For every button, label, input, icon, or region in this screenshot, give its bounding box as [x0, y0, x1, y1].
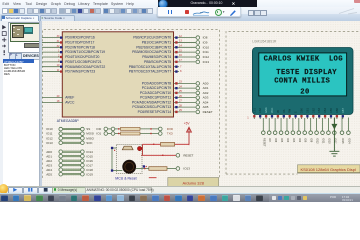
svg-text:SS: SS	[86, 127, 90, 131]
chip pin label AREF	[65, 95, 74, 99]
P/L buttons + DEVICES	[9, 53, 16, 60]
svg-text:TESTE DISPLAY: TESTE DISPLAY	[276, 68, 337, 76]
toolbar	[0, 7, 360, 16]
svg-text:+5V: +5V	[184, 121, 191, 125]
chip pin label PC5/ADC5/SCL/PCINT13	[132, 105, 171, 109]
svg-text:PB2/SS/OC1B/PCINT2: PB2/SS/OC1B/PCINT2	[136, 45, 171, 49]
svg-text:AD1: AD1	[46, 154, 52, 158]
svg-text:PD0/RXD/PCINT16: PD0/RXD/PCINT16	[65, 35, 95, 39]
header pair AD1 - IO15	[46, 154, 93, 158]
svg-text:PD5/T1/OC0B/PCINT21: PD5/T1/OC0B/PCINT21	[65, 59, 102, 63]
svg-text:PB5/SCK/PCINT5: PB5/SCK/PCINT5	[144, 59, 171, 63]
LCD terminal IO9	[303, 117, 308, 142]
LCD1 pin 3 stub	[265, 114, 267, 118]
svg-text:RS: RS	[283, 109, 286, 113]
wire R3 to button	[143, 143, 161, 155]
header pair IO13 - SCK	[46, 140, 92, 144]
chip pin PC3 wire to terminal AD3	[174, 93, 196, 98]
svg-text:RESET: RESET	[183, 153, 193, 157]
chip pin label PB7/TOSC2/XTAL2/PCINT7	[129, 69, 172, 73]
left mode toolbar icons	[1, 24, 8, 56]
svg-text:PD2/INT0/PCINT18: PD2/INT0/PCINT18	[65, 45, 95, 49]
ground (display)	[329, 117, 339, 156]
svg-text:TXD: TXD	[167, 131, 174, 135]
svg-text:AD2: AD2	[203, 90, 209, 94]
LCD1 pin 8 stub	[294, 114, 296, 118]
svg-text:PC2/ADC2/PCINT10: PC2/ADC2/PCINT10	[140, 90, 171, 94]
svg-text:DB6: DB6	[336, 107, 339, 112]
svg-text:DB7: DB7	[342, 107, 345, 112]
terminal RESET	[196, 109, 213, 113]
LCD1 pin 5 stub	[277, 114, 279, 118]
power +5V	[184, 121, 192, 144]
chip pin AREF stub	[42, 95, 63, 98]
terminal AD2	[196, 90, 209, 94]
chip pin label PD6/AIN0/OC0A/PCINT22	[65, 64, 105, 68]
svg-text:AD5: AD5	[203, 105, 209, 109]
chip pin label PB2/SS/OC1B/PCINT2	[136, 45, 171, 49]
svg-text:CONTA MILLIS: CONTA MILLIS	[274, 77, 330, 85]
svg-text:GND: GND	[265, 107, 268, 113]
LCD terminal IO14	[347, 117, 352, 144]
header pair AD4 - IO18	[46, 167, 93, 171]
svg-text:PC5/ADC5/SCL/PCINT13: PC5/ADC5/SCL/PCINT13	[132, 105, 171, 109]
splitter	[39, 21, 43, 187]
svg-text:PB6/TOSC1/XTAL1/PCINT6: PB6/TOSC1/XTAL1/PCINT6	[129, 64, 172, 68]
left panel base	[0, 21, 42, 187]
chip pin AVCC stub	[42, 99, 63, 102]
svg-text:RESET: RESET	[203, 109, 213, 113]
wire button to RESET terminal	[141, 154, 176, 155]
LCD terminal IO15	[340, 117, 345, 144]
svg-text:IO19: IO19	[86, 172, 93, 176]
svg-text:PC3/ADC3/PCINT11: PC3/ADC3/PCINT11	[140, 95, 171, 99]
resistor R1	[121, 127, 140, 130]
chip pin PC0 wire to terminal AD0	[174, 79, 196, 84]
svg-text:IO13: IO13	[46, 140, 53, 144]
svg-text:DB5: DB5	[330, 107, 333, 112]
overview window	[8, 22, 43, 54]
svg-text:IO10: IO10	[327, 137, 331, 143]
button actuator Q	[122, 159, 136, 173]
terminal AD0	[196, 81, 209, 85]
toolbar icons right of overlay	[248, 10, 255, 17]
chip pin PB7 stub	[174, 69, 182, 73]
chip pin label PB0/ICP1/CLKO/PCINT0	[133, 35, 171, 39]
terminal AD4	[196, 100, 209, 104]
chip pin label PD7/AIN1/PCINT23	[65, 69, 95, 73]
svg-text:AD0: AD0	[46, 149, 52, 153]
chip pin PB4 wire to terminal IO12	[174, 53, 196, 58]
header pair IO10 - SS	[46, 127, 90, 131]
chip pin PB2 wire to terminal IO10	[174, 43, 196, 48]
wire +5V to R3	[175, 143, 189, 146]
svg-text:PB0/ICP1/CLKO/PCINT0: PB0/ICP1/CLKO/PCINT0	[133, 35, 171, 39]
svg-text:PD4/T0/XCK/PCINT20: PD4/T0/XCK/PCINT20	[65, 55, 99, 59]
svg-text:IO7: IO7	[268, 137, 272, 142]
svg-text:IO11: IO11	[203, 50, 210, 54]
svg-text:DB1: DB1	[306, 107, 309, 112]
svg-text:IO14: IO14	[347, 137, 351, 143]
device list	[3, 59, 40, 188]
svg-text:IO12: IO12	[203, 55, 210, 59]
LCD1 screen	[259, 52, 347, 95]
svg-text:CS1: CS1	[253, 107, 256, 112]
LCD terminal IO17	[333, 117, 338, 143]
svg-text:IO15: IO15	[86, 154, 93, 158]
recorder overlay dark bar	[158, 0, 258, 7]
LCD terminal IO7	[267, 117, 272, 142]
svg-text:DB3: DB3	[318, 107, 321, 112]
chip pin label PC6/RESET/PCINT14	[138, 109, 172, 113]
chip pin label PB4/MISO/PCINT4	[142, 55, 171, 59]
svg-text:IO9: IO9	[304, 137, 308, 142]
chip pin PB5 wire to terminal IO13	[174, 58, 196, 63]
svg-text:DB0: DB0	[300, 107, 303, 112]
terminal IO8	[196, 35, 208, 39]
chip pin PD0 stub (pin 30)	[42, 35, 63, 39]
LCD1 body	[252, 47, 353, 114]
module label box Arduino 328	[168, 177, 219, 186]
header pair IO1 - TXD with resistor	[96, 131, 173, 135]
header pair AD3 - IO17	[46, 163, 93, 167]
terminal IO13	[196, 59, 209, 63]
chip pin PB6 stub	[174, 64, 182, 68]
LCD terminal IO3	[291, 117, 296, 142]
chip pin label PC4/ADC4/SDA/PCINT12	[132, 100, 171, 104]
chip pin PC1 wire to terminal AD1	[174, 84, 196, 89]
module label box KS0108	[297, 164, 359, 172]
Arduino module dashed border	[42, 29, 219, 177]
svg-text:PB1/OC1A/PCINT1: PB1/OC1A/PCINT1	[142, 40, 172, 44]
svg-text:IO10: IO10	[46, 127, 53, 131]
svg-text:AD3: AD3	[203, 95, 209, 99]
svg-text:PB3/MOSI/OC2A/PCINT3: PB3/MOSI/OC2A/PCINT3	[132, 50, 171, 54]
LCD terminal IO8	[309, 117, 314, 142]
chip pin PD4 stub (pin 2)	[42, 54, 63, 58]
chip pin PC2 wire to terminal AD2	[174, 89, 196, 94]
svg-text:IO6: IO6	[274, 137, 278, 142]
button cap	[122, 146, 133, 150]
chip pin label PD1/TXD/PCINT17	[65, 40, 94, 44]
svg-text:PD1/TXD/PCINT17: PD1/TXD/PCINT17	[65, 40, 94, 44]
LCD terminal IO4	[285, 117, 290, 142]
chip pin PC4 wire to terminal AD4	[174, 98, 196, 103]
svg-text:RW: RW	[289, 108, 292, 113]
chip pin PD5 stub (pin 9)	[42, 59, 63, 63]
svg-text:PD6/AIN0/OC0A/PCINT22: PD6/AIN0/OC0A/PCINT22	[65, 64, 105, 68]
svg-text:IO16: IO16	[86, 158, 93, 162]
svg-text:VCC: VCC	[271, 107, 274, 112]
resistor R3 reset pullup	[161, 142, 175, 146]
LCD terminal IO11	[321, 117, 326, 143]
chip U1 ATMEGA328P body	[62, 31, 173, 116]
terminal AD1	[196, 86, 209, 90]
chip pin label PB3/MOSI/OC2A/PCINT3	[132, 50, 171, 54]
LCD1 pin 10 stub	[306, 114, 308, 118]
LCD1 pin 13 stub	[324, 114, 326, 118]
svg-text:SCK: SCK	[86, 140, 92, 144]
svg-text:IO2: IO2	[298, 137, 302, 142]
recorder white panel	[157, 7, 241, 18]
svg-text:AD3: AD3	[46, 163, 52, 167]
LCD1 pin 1 stub	[253, 114, 255, 118]
svg-text:IO4: IO4	[286, 137, 290, 142]
LCD terminal IO10	[327, 117, 332, 143]
chip pin PD6 stub (pin 10)	[42, 64, 63, 68]
resistor R2	[121, 131, 140, 134]
svg-text:PB4/MISO/PCINT4: PB4/MISO/PCINT4	[142, 55, 171, 59]
LCD terminal IO5	[279, 117, 284, 142]
header pair AD0 - IO14	[46, 149, 93, 153]
svg-text:IO8: IO8	[203, 35, 208, 39]
svg-text:DB4: DB4	[324, 107, 327, 112]
terminal IO13	[176, 166, 190, 170]
svg-text:MCU & Reset: MCU & Reset	[115, 176, 136, 180]
chip U1 label ATMEGA328P	[57, 118, 80, 122]
svg-text:AD4: AD4	[203, 100, 209, 104]
terminal IO10	[196, 45, 209, 49]
svg-text:20: 20	[300, 88, 309, 96]
chip pin PD3 stub (pin 1)	[42, 49, 63, 53]
LCD terminal IO6	[273, 117, 278, 142]
svg-text:IO13: IO13	[183, 166, 190, 170]
svg-text:AD1: AD1	[203, 86, 209, 90]
header pair AD2 - IO16	[46, 158, 93, 162]
LCD1 screen text	[264, 55, 343, 96]
svg-text:MOSI: MOSI	[86, 131, 94, 135]
svg-text:AD5: AD5	[46, 172, 52, 176]
svg-text:IO3: IO3	[292, 137, 296, 142]
display module dashed border	[226, 31, 360, 174]
chip pin PB3 wire to terminal IO11	[174, 48, 196, 53]
svg-text:AD0: AD0	[203, 81, 209, 85]
svg-text:AD2: AD2	[46, 158, 52, 162]
LCD1 pin 11 stub	[312, 114, 314, 118]
chip pin label PB6/TOSC1/XTAL1/PCINT6	[129, 64, 172, 68]
svg-text:IO12: IO12	[316, 137, 320, 143]
svg-text:CS2: CS2	[259, 107, 262, 112]
label MCU & Reset	[115, 176, 136, 180]
resistor R4	[149, 166, 167, 170]
chip pin PB1 wire to terminal IO9	[174, 38, 196, 43]
svg-text:IO11: IO11	[46, 131, 53, 135]
chip pin label PC2/ADC2/PCINT10	[140, 90, 171, 94]
svg-text:IO15: IO15	[341, 137, 345, 143]
LCD terminal IO12	[315, 117, 320, 143]
chip pin label PD3/INT1/OC2B/PCINT19	[65, 50, 105, 54]
menu bar	[0, 0, 360, 7]
chip pin PD1 stub (pin 31)	[42, 39, 63, 43]
chip pin label AVCC	[65, 100, 75, 104]
LCD1 pin1 number	[247, 115, 249, 119]
chip pin label PB5/SCK/PCINT5	[144, 59, 171, 63]
LCD1 pin 12 stub	[318, 114, 320, 118]
wire (red stub near module border)	[149, 176, 157, 178]
svg-text:IO1: IO1	[96, 131, 101, 135]
terminal IO12	[196, 55, 209, 59]
svg-text:PD3/INT1/OC2B/PCINT19: PD3/INT1/OC2B/PCINT19	[65, 50, 105, 54]
svg-text:MISO: MISO	[86, 136, 94, 140]
LCD1 pin 7 stub	[289, 114, 291, 118]
svg-text:IO18: IO18	[86, 167, 93, 171]
terminal IO9	[196, 40, 208, 44]
chip pin label PC1/ADC1/PCINT9	[142, 86, 172, 90]
LCD1 pin 9 stub	[300, 114, 302, 118]
window close sliver	[354, 0, 360, 3]
chip pin label PB1/OC1A/PCINT1	[142, 40, 172, 44]
svg-text:PD7/AIN1/PCINT23: PD7/AIN1/PCINT23	[65, 69, 95, 73]
svg-text:IO0: IO0	[96, 126, 101, 130]
svg-text:ATMEGA328P: ATMEGA328P	[57, 118, 80, 122]
LED D1	[138, 146, 142, 150]
chip pin label PD2/INT0/PCINT18	[65, 45, 95, 49]
svg-text:AD4: AD4	[46, 167, 52, 171]
terminal AD3	[196, 95, 209, 99]
LCD terminal IO2	[297, 117, 302, 142]
svg-text:IO11: IO11	[321, 137, 325, 143]
svg-text:IO8: IO8	[310, 137, 314, 142]
svg-text:LGM12641BS1R: LGM12641BS1R	[252, 39, 277, 43]
header pair IO11 - MOSI	[46, 131, 94, 135]
terminal IO11	[196, 50, 209, 54]
svg-text:PC1/ADC1/PCINT9: PC1/ADC1/PCINT9	[142, 86, 172, 90]
LCD terminal RESET	[261, 117, 266, 146]
wire button to R4 to IO13 terminal	[136, 167, 176, 168]
svg-text:IO17: IO17	[86, 163, 93, 167]
svg-text:DB2: DB2	[312, 107, 315, 112]
LCD1 pin 4 stub	[271, 114, 273, 118]
button wires and probes	[111, 146, 147, 171]
svg-text:KS0108 128x64 Graphics Displ: KS0108 128x64 Graphics Displ	[300, 166, 355, 171]
svg-text:IO9: IO9	[203, 40, 208, 44]
svg-text:IO10: IO10	[203, 45, 210, 49]
header pair IO12 - MISO	[46, 136, 94, 140]
terminal RESET	[176, 153, 193, 157]
svg-text:PB7/TOSC2/XTAL2/PCINT7: PB7/TOSC2/XTAL2/PCINT7	[129, 69, 172, 73]
svg-text:RXD: RXD	[167, 126, 174, 130]
svg-text:AREF: AREF	[65, 95, 74, 99]
schematic canvas svg placeholder	[42, 21, 360, 187]
svg-text:AVCC: AVCC	[65, 100, 75, 104]
LCD1 pin 6 stub	[283, 114, 285, 118]
LCD1 pin 16 stub	[342, 114, 344, 118]
chip pin PD2 stub (pin 32)	[42, 44, 63, 48]
LCD1 pin strip on body	[253, 107, 344, 113]
chip pin PD7 stub (pin 11)	[42, 69, 63, 73]
svg-text:RESET: RESET	[262, 137, 266, 146]
LCD1 label LGM12641BS1R	[252, 39, 277, 43]
header pair IO0 - RXD with resistor	[96, 126, 174, 130]
svg-text:IO5: IO5	[280, 137, 284, 142]
svg-text:IO12: IO12	[46, 136, 53, 140]
svg-text:Arduino 328: Arduino 328	[182, 180, 204, 185]
chip pin label PD5/T1/OC0B/PCINT21	[65, 59, 102, 63]
chip pin label PC0/ADC0/PCINT8	[142, 81, 172, 85]
chip pin label PC3/ADC3/PCINT11	[140, 95, 171, 99]
svg-text:PC4/ADC4/SDA/PCINT12: PC4/ADC4/SDA/PCINT12	[132, 100, 171, 104]
terminal AD5	[196, 105, 209, 109]
svg-text:CARLOS KWIEK LOG: CARLOS KWIEK LOG	[264, 55, 343, 63]
status bar	[0, 186, 360, 194]
chip pin PB0 wire to terminal IO8	[174, 33, 196, 38]
button outline (selection box)	[117, 144, 142, 173]
chip pin label PD0/RXD/PCINT16	[65, 35, 95, 39]
chip pin label PD4/T0/XCK/PCINT20	[65, 55, 99, 59]
svg-text:PC0/ADC0/PCINT8: PC0/ADC0/PCINT8	[142, 81, 172, 85]
svg-text:IO13: IO13	[203, 59, 210, 63]
LCD1 pin 15 stub	[336, 114, 338, 118]
LCD1 pin 14 stub	[330, 114, 332, 118]
chip pin PC5 wire to terminal AD5	[174, 103, 196, 108]
chip pin PC6 wire to terminal RESET	[174, 108, 196, 113]
svg-text:IO17: IO17	[333, 137, 337, 143]
LCD1 pin 2 stub	[259, 114, 261, 118]
tab bar	[0, 14, 360, 21]
taskbar	[0, 193, 360, 202]
svg-text:PC6/RESET/PCINT14: PC6/RESET/PCINT14	[138, 109, 172, 113]
header pair AD5 - IO19	[46, 172, 93, 176]
svg-text:IO14: IO14	[86, 149, 93, 153]
